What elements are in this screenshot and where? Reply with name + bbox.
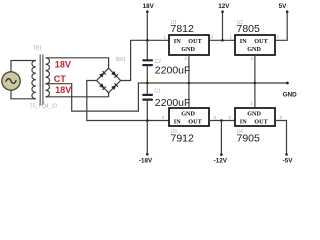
wire negative rail U3 out to U4 in [209,120,235,122]
svg-text:12V: 12V [218,3,230,10]
wire U4 out to -5V terminal [275,121,287,155]
diode left-to-top [99,71,106,78]
junction ground rail at U1/U3 [188,82,191,85]
svg-text:GND: GND [247,46,261,53]
wire U3 ground pin to ground rail [188,83,190,108]
wire U4 ground pin to ground rail [254,83,256,108]
regulator U3 7912 [169,108,209,126]
capacitor C1 [142,94,153,101]
wire C1 bottom through negative rail to -18V terminal [146,101,148,154]
transformer TB1 secondary winding lower [46,84,50,97]
wire U2 out to 5V terminal [275,12,287,41]
svg-text:GND: GND [283,91,297,98]
diode bottom-to-right [111,83,118,90]
transformer TB1 secondary winding upper [46,58,50,84]
svg-text:CT: CT [54,74,67,84]
svg-text:5V: 5V [279,3,288,10]
node 12V terminal [218,3,230,13]
transformer TB1 core [40,55,43,106]
svg-text:TB1: TB1 [33,46,42,52]
capacitor C2 [142,59,153,66]
junction ground rail / capacitors [146,82,149,85]
svg-text:2200uF: 2200uF [155,65,191,77]
wire ac source to primary bottom [11,90,36,99]
node GND terminal [283,82,297,99]
junction negative rail at C1 branch [146,119,149,122]
svg-text:-18V: -18V [139,158,153,164]
wire bridge right corner to positive rail [121,40,169,80]
svg-text:IN: IN [240,118,247,125]
wire U2 ground pin to ground rail [254,55,256,83]
svg-text:OUT: OUT [254,38,268,45]
svg-text:GND: GND [181,110,195,117]
wire positive rail U1 out to U2 in [209,39,235,41]
bridge rectifier BR1 [97,68,121,93]
svg-text:IN: IN [174,118,181,125]
node -18V terminal [139,153,153,165]
wire ac source to primary top [11,61,36,72]
svg-text:TS_PQ4_10: TS_PQ4_10 [30,104,58,110]
ac source V1 [2,72,20,90]
wire 12V tap [222,12,224,41]
transformer TB1 primary winding [32,61,36,99]
wire C2 bottom to ground rail [146,66,148,83]
junction on positive rail at C2 branch [146,39,149,42]
svg-text:GND: GND [247,110,261,117]
regulator U4 7905 [235,108,275,126]
wire U1 ground pin to ground rail [188,55,190,83]
svg-text:18V: 18V [55,85,71,95]
diode top-to-right [111,71,118,78]
svg-text:7812: 7812 [171,23,195,35]
svg-text:OUT: OUT [254,118,268,125]
svg-text:IN: IN [174,38,181,45]
svg-text:IN: IN [240,38,247,45]
svg-text:-12V: -12V [214,158,228,164]
node 18V terminal at top [143,3,155,13]
wire secondary top to bridge top corner [46,58,109,68]
svg-text:GND: GND [181,46,195,53]
svg-text:18V: 18V [143,3,155,10]
svg-text:7805: 7805 [237,23,261,35]
junction 12V tap [221,39,224,42]
junction -12V tap [220,119,223,122]
svg-text:7912: 7912 [171,133,195,145]
svg-text:-5V: -5V [283,158,294,164]
junction ground rail at U2/U4 [254,82,257,85]
wire ground rail to C1 top [146,83,148,94]
svg-text:18V: 18V [55,59,71,69]
wire center tap to ground rail [46,83,288,111]
wire -12V tap [220,121,222,155]
regulator U1 7812 [169,35,209,55]
wire secondary bottom to bridge bottom corner [46,93,109,97]
regulator U2 7805 [235,35,275,55]
svg-text:OUT: OUT [188,38,202,45]
svg-text:OUT: OUT [188,118,202,125]
wire bridge left corner to negative rail [87,81,169,121]
node -5V terminal [283,153,294,165]
wire 18V terminal down through positive rail to C2 [146,12,148,60]
svg-text:BR1: BR1 [116,57,126,63]
svg-text:7905: 7905 [237,133,261,145]
node -12V terminal [214,153,228,164]
node 5V terminal [279,3,289,13]
diode left-to-bottom [99,83,106,90]
svg-text:C1: C1 [154,89,161,95]
